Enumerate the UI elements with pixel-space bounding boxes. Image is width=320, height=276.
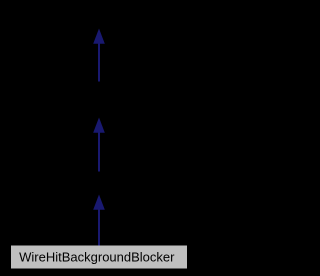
svg-text:WireHitBackgroundBlocker: WireHitBackgroundBlocker — [19, 249, 175, 264]
inheritance arrow 1 (topmost edge) — [93, 29, 105, 82]
inheritance arrow 2 (middle edge) — [93, 118, 105, 172]
node WireHitBackgroundBlocker (current class box) — [11, 245, 187, 268]
inheritance arrow 3 (bottom edge into WireHitBackgroundBlocker) — [93, 195, 105, 246]
